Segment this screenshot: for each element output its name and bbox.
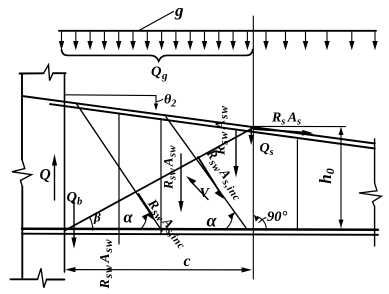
c dimension line with arrows <box>70 269 246 271</box>
right end cut: vertical with break <box>374 139 376 246</box>
Qb arrow <box>73 199 75 244</box>
90 degrees arc with arrow <box>257 217 266 229</box>
Qs arrow (down, at crack tip) <box>250 127 252 140</box>
svg-text:h0: h0 <box>316 168 337 183</box>
svg-text:α: α <box>124 208 134 227</box>
Q arrow (support shear) <box>54 160 56 200</box>
svg-text:RswAsw: RswAsw <box>98 239 115 290</box>
stirrup line 1 <box>118 113 120 244</box>
left column cut: vertical with break <box>21 74 23 278</box>
svg-text:RswAs,inc: RswAs,inc <box>142 195 192 252</box>
beam left face vertical <box>64 73 66 272</box>
stirrup force arrow 2 <box>235 131 237 171</box>
compressed chord: lower sloped line <box>50 104 375 148</box>
leader line from g to load line <box>138 12 174 32</box>
compressed chord: upper sloped line <box>22 96 375 144</box>
svg-text:β: β <box>93 210 101 225</box>
h0 dimension line with arrows <box>340 128 342 227</box>
svg-text:RsAs: RsAs <box>271 111 301 128</box>
alpha arc 1 with arrow <box>141 216 147 230</box>
svg-text:V: V <box>200 186 211 201</box>
bent bar a <box>77 105 162 232</box>
bent bar b force arrow <box>198 157 220 193</box>
svg-text:θ2: θ2 <box>164 93 176 110</box>
alpha arc 2 with arrow <box>227 215 233 229</box>
bent bar b <box>166 117 247 229</box>
stirrup line 2 <box>160 119 162 234</box>
svg-text:c: c <box>184 253 191 270</box>
bottom horizontal with break <box>11 278 65 280</box>
svg-text:90°: 90° <box>267 209 288 225</box>
horizontal reference at crack tip level <box>253 125 345 127</box>
svg-text:RswAsw: RswAsw <box>161 145 179 190</box>
bent bar a force arrow <box>139 194 153 216</box>
beta arc <box>90 217 93 230</box>
svg-text:Qb: Qb <box>67 190 83 208</box>
distributed load g: label <box>0 0 1 1</box>
brace under load <box>62 50 253 62</box>
load top line <box>59 30 376 32</box>
Rs As force arrow (longitudinal steel) <box>254 129 306 133</box>
V arrow <box>190 181 208 200</box>
load arrows <box>59 32 378 50</box>
longitudinal bars: double line <box>22 229 378 230</box>
svg-text:Qs: Qs <box>260 141 274 158</box>
svg-text:g: g <box>174 1 184 20</box>
theta2 reference horizontal <box>65 94 156 97</box>
theta2 tick with arrow <box>155 96 157 105</box>
inclined crack <box>65 128 253 231</box>
stirrup line right of section <box>296 140 298 229</box>
svg-text:Qg: Qg <box>151 64 168 82</box>
section (vertical) line at crack tip <box>252 16 254 279</box>
stirrup force arrow 1 <box>180 154 182 206</box>
svg-text:Q: Q <box>40 167 51 184</box>
top horizontal of column with break <box>20 72 66 74</box>
svg-text:α: α <box>207 211 218 231</box>
